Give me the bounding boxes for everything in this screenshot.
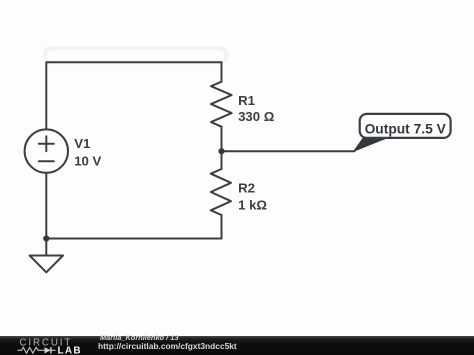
- ground stub wire: [45, 239, 47, 256]
- output callout tail: [353, 136, 394, 152]
- wire V1 bottom lead: [45, 173, 47, 239]
- selection halo on top wire: [45, 48, 227, 62]
- footer bar: [0, 336, 474, 355]
- node junction dot: [218, 148, 224, 154]
- ground junction dot: [43, 235, 49, 241]
- logo resistor zigzag: [18, 347, 43, 353]
- svg-text:330 Ω: 330 Ω: [238, 109, 275, 124]
- wire output tap: [222, 150, 355, 152]
- output callout box: [360, 114, 451, 138]
- V1 minus sign: [39, 160, 54, 162]
- wire R2 top lead: [221, 151, 223, 169]
- ground symbol: [30, 256, 63, 273]
- wire R2 bottom lead: [221, 215, 223, 239]
- wire bottom: [46, 238, 221, 240]
- wire R1 bottom lead to node: [221, 127, 223, 152]
- svg-text:10 V: 10 V: [74, 154, 101, 169]
- V1 plus sign: [39, 136, 54, 151]
- svg-text:1 kΩ: 1 kΩ: [238, 198, 267, 213]
- label V1: [74, 93, 275, 213]
- svg-text:Output 7.5 V: Output 7.5 V: [365, 121, 447, 136]
- svg-text:V1: V1: [74, 136, 90, 151]
- logo diode: [42, 349, 56, 351]
- wire top-left loop: left riser, top wire, R1 top lead: [46, 62, 221, 129]
- voltage source V1 circle: [25, 129, 68, 172]
- svg-text:R2: R2: [238, 181, 255, 196]
- resistor R2: [211, 169, 231, 215]
- svg-text:R1: R1: [238, 93, 255, 108]
- resistor R1: [211, 82, 232, 127]
